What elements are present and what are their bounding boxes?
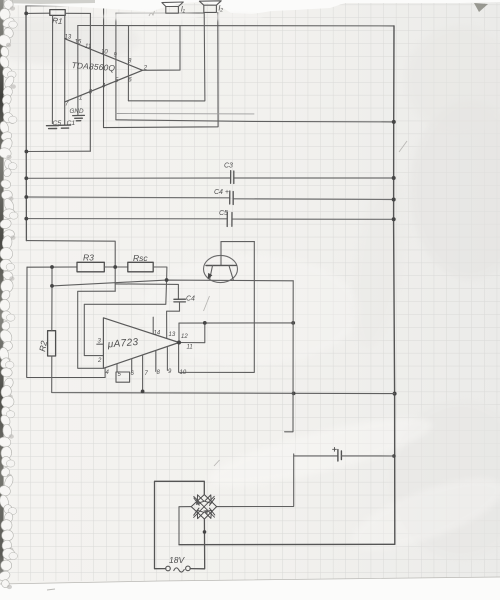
svg-text:GND: GND <box>70 108 84 115</box>
node rail dots top block <box>24 12 28 154</box>
wire C1 drop / triangle left edge x=64.7 <box>64 15 66 124</box>
pin9 stub <box>166 348 168 371</box>
svg-text:14: 14 <box>154 331 161 337</box>
wire y=13.4 from rail to R1 <box>26 12 50 14</box>
pin14 stub <box>152 317 154 334</box>
wire base top <box>221 241 254 243</box>
ground (pin1) <box>73 115 85 120</box>
box on pins 5-6 <box>116 372 130 382</box>
svg-text:C3: C3 <box>224 163 233 170</box>
wire y=284 to C4 <box>115 284 178 299</box>
wire R2 bottom to long y=393 <box>52 356 395 394</box>
wire y=322.9 to x=293 <box>179 322 293 324</box>
node dots on right rail <box>392 120 397 458</box>
wire top rail y=5.6 <box>26 5 104 7</box>
svg-text:11: 11 <box>85 44 91 50</box>
node dots on left rail <box>24 176 28 220</box>
pin6 stub <box>131 359 133 371</box>
torn left edge placeholder <box>0 0 18 589</box>
wire pin9 vertical x=115.9 <box>115 13 117 120</box>
svg-text:1: 1 <box>79 96 82 102</box>
svg-text:C4: C4 <box>186 296 195 303</box>
wire bottom return y=544.5 <box>179 543 395 545</box>
transformer terminal right <box>186 566 191 571</box>
wire x=179 feedback <box>178 323 180 342</box>
wire bottom y=151 <box>26 150 90 152</box>
bridge rectifier B1 <box>191 495 216 519</box>
svg-text:18V: 18V <box>169 555 185 565</box>
wire R3 to Rsc <box>104 266 128 268</box>
svg-text:13: 13 <box>169 332 176 338</box>
stray pencil marks <box>47 11 407 590</box>
top paper edge <box>0 0 500 14</box>
wire dot2 to R2 <box>51 286 53 331</box>
wire pin11 vertical x=90.4 <box>89 13 91 151</box>
wire emitter node down-left loop <box>84 280 166 356</box>
svg-text:C1: C1 <box>67 120 76 127</box>
svg-text:13: 13 <box>65 35 72 41</box>
pin3 input tick <box>97 343 104 345</box>
node dots uA723 area <box>50 265 295 395</box>
svg-text:11: 11 <box>187 345 193 351</box>
svg-text:l₁: l₁ <box>181 5 186 14</box>
capacitor C5 (middle band) <box>227 212 232 227</box>
svg-text:2: 2 <box>143 66 148 72</box>
wire left rail top block <box>25 6 27 241</box>
wire pin8 vertical x=128.5 <box>127 26 129 101</box>
transformer terminal left <box>166 566 171 571</box>
wire bridge left node down <box>179 507 191 545</box>
speaker L1 <box>162 2 183 13</box>
svg-text:Rsc: Rsc <box>133 253 148 263</box>
wire y=178 left of C3 <box>26 177 230 179</box>
pin8 stub <box>155 351 157 371</box>
wire pin10 vertical x=103.6 <box>103 6 105 128</box>
svg-text:C5: C5 <box>219 210 228 217</box>
wire x=293 vertical lower to bridge <box>217 454 294 507</box>
speaker L2 <box>199 1 221 13</box>
wire x=293 vertical upper <box>285 281 294 432</box>
svg-text:10: 10 <box>180 370 187 376</box>
wire bridge top node to transformer left <box>155 481 205 568</box>
gray scan sliver top-left <box>0 0 95 4</box>
wire y=218.6 left of C5b <box>26 218 227 220</box>
capacitor C1 <box>59 125 70 128</box>
wire y=197 left of C4b <box>26 196 229 199</box>
pin4 stub <box>104 368 106 378</box>
wire y=291 to left box edge <box>78 291 116 368</box>
wire speaker feed y=13.2 <box>116 12 204 14</box>
svg-text:C5: C5 <box>53 120 62 127</box>
wire right rail x=394 <box>394 26 395 544</box>
resistor Rsc <box>128 262 153 272</box>
capacitor C4 (middle band) <box>230 191 234 205</box>
wire C5 drop x=52.6 <box>51 15 53 123</box>
CIRCUIT strokes placeholder <box>24 6 396 573</box>
node dot bridge lower <box>203 530 207 534</box>
wire bridge bottom node to transformer right <box>190 519 205 569</box>
pin5 stub <box>116 364 118 372</box>
wire pin15/GND vertical x=77.8 <box>77 26 79 116</box>
svg-text:R2: R2 <box>37 340 49 353</box>
svg-text:R1: R1 <box>52 16 63 26</box>
op-amp U2 uA723 triangle <box>103 318 179 369</box>
wire faint stub y=113.4 <box>116 113 254 115</box>
wire C4 bottom to pin13 <box>167 302 180 338</box>
wire Rsc right to emitter node <box>153 267 167 280</box>
resistor R1 <box>50 10 65 16</box>
wire op-amp output pin2 <box>143 26 181 71</box>
wire y=127.6 to speaker L2 right <box>104 13 219 128</box>
wire R2 top stub <box>51 267 53 286</box>
svg-text:2: 2 <box>97 358 102 364</box>
svg-text:10: 10 <box>101 50 108 56</box>
capacitor C4 (10n) <box>174 299 186 302</box>
wire capacitor stub <box>294 455 338 457</box>
AC squiggle <box>174 568 184 572</box>
wire y=199 right of C4b <box>233 198 394 201</box>
capacitor C3 <box>231 171 234 184</box>
white tear smudge under speakers <box>102 12 198 22</box>
wire R1 to x=90 <box>65 12 90 14</box>
pin10 wire <box>179 242 255 373</box>
transistor Q1 <box>204 255 238 282</box>
wire rail corner to x=115 <box>26 241 115 292</box>
wire y=120 to right rail <box>116 120 394 122</box>
scan dark edge strip <box>0 0 1 1</box>
wire emitter rail y=280-286 <box>52 280 293 286</box>
svg-text:15: 15 <box>75 40 82 46</box>
wire y=100.8 to L2 left <box>128 13 205 101</box>
pin7 stub <box>142 356 144 392</box>
svg-text:R3: R3 <box>83 253 94 263</box>
wire apex to riser <box>179 323 205 343</box>
wire left lower rail x=27 <box>27 267 105 377</box>
wire y=178 right of C3 <box>234 177 394 179</box>
resistor R3 <box>77 262 104 272</box>
svg-text:l₂: l₂ <box>219 4 224 13</box>
svg-text:12: 12 <box>181 334 188 340</box>
wire y=25.6 long top <box>78 25 394 27</box>
capacitor C5 (top-left) <box>47 126 59 129</box>
dark notch top right <box>474 3 488 12</box>
resistor R2 <box>48 331 56 356</box>
wire y=219 right of C5b <box>232 218 394 220</box>
capacitor C6 (+) <box>338 450 342 461</box>
svg-text:C4 +: C4 + <box>214 189 229 196</box>
bottom paper edge <box>0 577 500 600</box>
wire cap to rail <box>341 455 394 457</box>
op-amp U1 TDA8560Q triangle <box>65 39 143 102</box>
wire R3 row y=267 <box>27 266 77 268</box>
